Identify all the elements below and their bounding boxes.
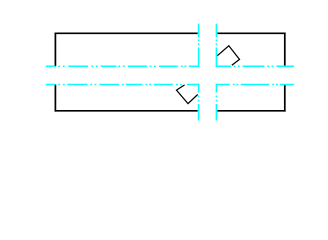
centerline H2 right run bbox=[216, 84, 294, 86]
centerline H2 left run bbox=[46, 84, 199, 86]
lower square symbol (clipped rotated square) bbox=[177, 85, 198, 104]
plate1 top edge left segment bbox=[55, 32, 198, 34]
centerline V1 upper run bbox=[198, 24, 200, 68]
plate2 left edge bbox=[54, 85, 56, 112]
plate1 right edge bbox=[284, 33, 286, 67]
plate2 right edge bbox=[284, 85, 286, 112]
plate2 bottom edge right segment bbox=[217, 110, 285, 112]
centerline V2 upper run bbox=[215, 24, 217, 68]
centerline V2 lower run bbox=[215, 84, 217, 121]
centerline H1 right run bbox=[216, 65, 294, 67]
plate2 bottom edge left segment bbox=[55, 110, 198, 112]
upper square symbol (clipped rotated square) bbox=[217, 46, 239, 66]
centerline H1 left run bbox=[46, 65, 199, 67]
plate1 left edge bbox=[54, 33, 56, 67]
centerline V1 lower run bbox=[198, 84, 200, 121]
plate1 top edge right segment bbox=[217, 32, 285, 34]
